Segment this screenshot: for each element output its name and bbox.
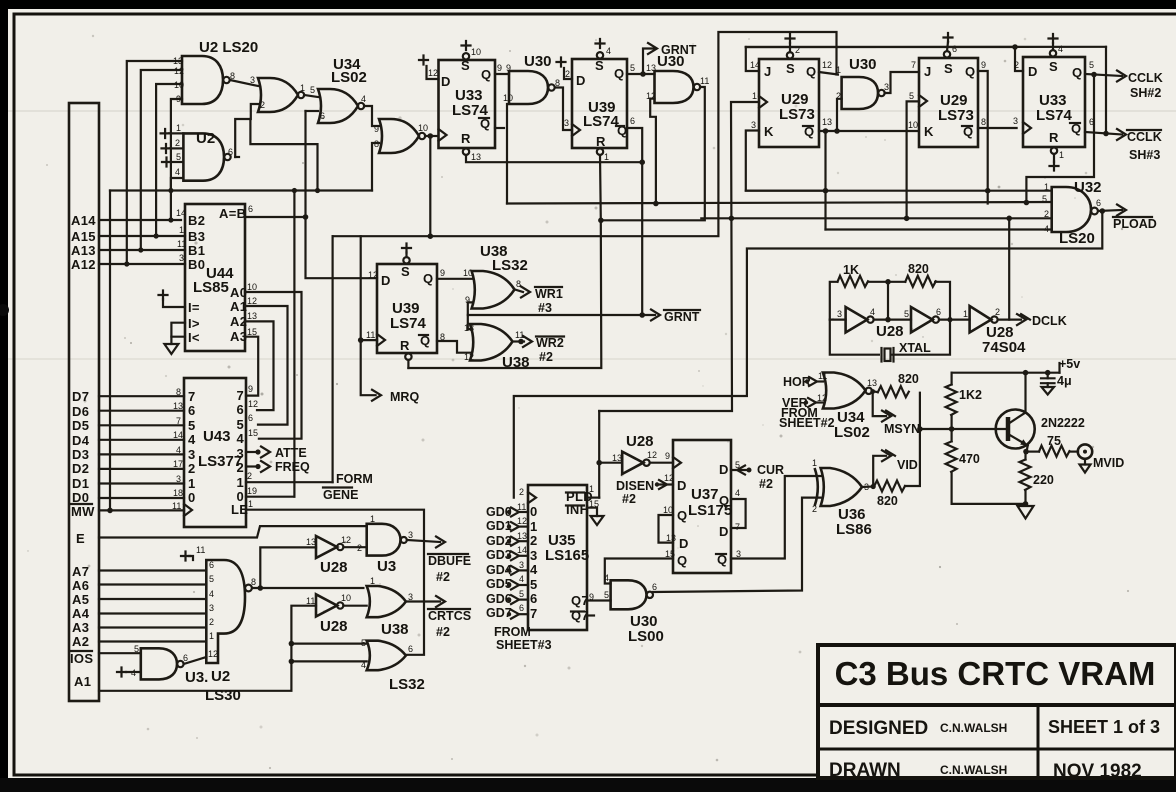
svg-text:10: 10 (663, 505, 673, 515)
svg-text:DCLK: DCLK (1032, 314, 1067, 328)
in1 line y190.7 (746, 190, 1052, 192)
svg-text:1: 1 (812, 458, 817, 468)
svg-text:LS73: LS73 (938, 107, 974, 124)
wire U39.Qbar6 to GRNT net riser (627, 128, 642, 315)
scan artifact faint lines (8, 110, 1176, 112)
svg-text:9: 9 (248, 384, 253, 394)
U37 Q15 wire to U30 nand in4 (605, 559, 673, 584)
svg-text:E: E (76, 531, 85, 546)
svg-text:6: 6 (237, 402, 245, 417)
riser LS30 out to inverter U28 first (260, 547, 316, 588)
svg-text:11: 11 (700, 76, 709, 86)
svg-text:SH#2: SH#2 (1130, 86, 1161, 100)
NOR3 in8 riser from MW line (372, 143, 379, 191)
svg-text:LS02: LS02 (834, 424, 870, 441)
MSYN arrow (873, 392, 920, 437)
svg-text:7: 7 (188, 389, 196, 404)
pullup + on U33 D input (419, 56, 439, 80)
pullup + on U3 pin4 (117, 668, 141, 677)
in5 line y203.5 (507, 202, 1052, 204)
U37 Q10 to D13 feedback (659, 515, 674, 543)
svg-text:#3: #3 (538, 301, 552, 315)
title block (818, 645, 1176, 782)
node A13 riser to U2 pin12 (141, 70, 182, 250)
svg-text:4: 4 (606, 46, 611, 56)
WR1 arrow (515, 287, 563, 316)
svg-text:A12: A12 (71, 257, 96, 272)
svg-text:S: S (401, 264, 410, 279)
svg-text:LS32: LS32 (389, 676, 425, 693)
svg-text:2: 2 (188, 461, 196, 476)
U29 second Qbar8 to U33 second clock (978, 127, 1017, 129)
svg-text:10: 10 (418, 123, 428, 133)
svg-text:IOS: IOS (70, 651, 93, 666)
svg-text:CUR: CUR (757, 463, 784, 477)
svg-text:6: 6 (408, 644, 413, 654)
mid node riser (887, 282, 889, 320)
wire A5 (99, 598, 206, 600)
wire U2 out8 to NOR in3 (230, 80, 258, 86)
U35 PLD pin wire (587, 497, 599, 499)
svg-text:11: 11 (366, 330, 375, 340)
U33 first clk riser to y236 (429, 136, 431, 236)
svg-text:R: R (400, 338, 410, 353)
svg-text:10: 10 (341, 593, 351, 603)
svg-text:LS74: LS74 (583, 113, 620, 130)
svg-text:U28: U28 (626, 433, 654, 450)
svg-text:12: 12 (822, 60, 832, 70)
svg-text:11: 11 (177, 239, 186, 249)
svg-text:5: 5 (909, 91, 914, 101)
svg-text:1: 1 (752, 91, 757, 101)
wire A14 bus to U44.B2 (99, 219, 181, 221)
svg-text:WR1: WR1 (535, 287, 563, 301)
wire A12 bus to U44.B0 (99, 263, 185, 265)
FORM riser (332, 236, 334, 482)
svg-text:MVID: MVID (1093, 456, 1124, 470)
svg-text:U28: U28 (876, 323, 904, 340)
nand U2 LS30 (196, 545, 256, 704)
svg-text:1: 1 (300, 83, 305, 93)
svg-text:11: 11 (196, 545, 205, 555)
svg-text:12: 12 (248, 399, 258, 409)
svg-text:15: 15 (247, 327, 257, 337)
svg-text:3: 3 (209, 603, 214, 613)
svg-text:13: 13 (822, 117, 832, 127)
svg-text:1: 1 (604, 152, 609, 162)
svg-text:R: R (596, 134, 606, 149)
svg-text:17: 17 (173, 459, 183, 469)
FREQ output arrow (246, 460, 310, 474)
GD3 input (486, 548, 528, 562)
svg-text:LS85: LS85 (193, 279, 229, 296)
GD7 input (486, 606, 528, 620)
bus labels (70, 213, 96, 689)
CCLKbar output (1085, 129, 1162, 162)
svg-text:D: D (719, 462, 729, 477)
svg-text:A6: A6 (72, 578, 89, 593)
and U3 (DBUFE) (357, 514, 413, 575)
svg-text:1K2: 1K2 (959, 388, 982, 402)
inverter U28 first (306, 535, 351, 576)
svg-text:LS20: LS20 (1059, 230, 1095, 247)
svg-text:DISEN: DISEN (616, 479, 654, 493)
GD1 input (486, 519, 528, 533)
resistor 1K (838, 276, 869, 287)
svg-text:13: 13 (612, 453, 622, 463)
svg-text:13: 13 (867, 378, 877, 388)
svg-text:SHEET 1 of 3: SHEET 1 of 3 (1048, 717, 1160, 737)
U30 third out3 to U29 second J (885, 72, 920, 93)
CRTCS arrow (406, 596, 471, 639)
nand U2 LS20 first (173, 39, 258, 104)
U37 Q4 to D7 feedback (731, 499, 746, 528)
wire MW to clock (99, 509, 184, 511)
svg-text:9: 9 (665, 451, 670, 461)
svg-text:3: 3 (250, 75, 255, 85)
svg-text:820: 820 (898, 372, 919, 386)
svg-text:A15: A15 (71, 229, 96, 244)
svg-text:VID: VID (897, 458, 918, 472)
or U38 LS32 first (465, 243, 528, 309)
svg-text:4: 4 (735, 488, 740, 498)
svg-text:LS74: LS74 (1036, 107, 1073, 124)
svg-text:U2: U2 (196, 130, 215, 147)
nand U2 second (pullup inputs) (183, 133, 230, 180)
svg-text:3: 3 (1013, 116, 1018, 126)
inverter U28 mid (612, 433, 657, 474)
svg-text:6: 6 (630, 116, 635, 126)
svg-text:1: 1 (370, 514, 375, 524)
svg-text:LS00: LS00 (628, 628, 664, 645)
svg-text:C.N.WALSH: C.N.WALSH (940, 721, 1007, 735)
svg-text:U3.: U3. (185, 669, 208, 686)
svg-text:6: 6 (652, 582, 657, 592)
wire D5 (99, 424, 184, 426)
svg-text:5: 5 (176, 152, 181, 162)
node A14 riser to U2 pin9 (171, 99, 182, 220)
svg-text:FORM: FORM (336, 472, 373, 486)
clock distribution line y236 (333, 235, 719, 237)
svg-text:2: 2 (565, 69, 570, 79)
svg-text:U30: U30 (849, 56, 877, 73)
wire A4 (99, 612, 206, 614)
resistor 820 upper (878, 386, 909, 397)
svg-text:A5: A5 (72, 592, 89, 607)
svg-text:I<: I< (188, 330, 200, 345)
riser U30 in10 down to in5 line (506, 104, 508, 204)
svg-text:2: 2 (519, 487, 524, 497)
svg-text:6: 6 (530, 591, 538, 606)
svg-text:1: 1 (248, 499, 253, 509)
or LS32 bottom (361, 638, 425, 693)
U2.6/GENE link riser x317.5 (250, 119, 317, 191)
title block vertical divider (1037, 705, 1040, 778)
PLOAD output arrow (1098, 205, 1157, 232)
svg-text:D5: D5 (72, 418, 89, 433)
oscillator loop box (830, 282, 950, 355)
svg-text:4: 4 (175, 167, 180, 177)
svg-text:2: 2 (247, 471, 252, 481)
svg-text:5: 5 (188, 418, 196, 433)
svg-text:4: 4 (870, 307, 875, 317)
svg-text:R: R (461, 131, 471, 146)
svg-text:Q: Q (481, 67, 491, 82)
svg-text:J: J (764, 64, 772, 79)
wire U33.Q to U30 nand (495, 73, 509, 75)
wire NOR2 out to NOR3 in9 (364, 106, 379, 126)
svg-text:10: 10 (174, 80, 184, 90)
GD4 input (486, 563, 528, 577)
VID arrow (873, 450, 918, 486)
U29 second clk riser from DCLK line (907, 101, 919, 218)
svg-text:2: 2 (1014, 60, 1019, 70)
wire A15 bus to U44.B3 (99, 235, 185, 237)
svg-text:14: 14 (750, 60, 760, 70)
svg-text:4: 4 (209, 589, 214, 599)
U39 second Q9 to OR gate (437, 278, 472, 280)
svg-text:4: 4 (1058, 44, 1063, 54)
svg-text:A=B: A=B (219, 206, 246, 221)
svg-text:1: 1 (209, 631, 214, 641)
nor U34 HOR/VER (817, 371, 877, 441)
or U38 (CRTCS) (367, 576, 413, 638)
svg-text:D7: D7 (72, 389, 89, 404)
svg-text:D: D (679, 536, 689, 551)
svg-text:Q: Q (614, 66, 624, 81)
U28 mid out to U37 clock (650, 462, 673, 464)
U29 first K feedback from Qbar (819, 130, 919, 132)
U33 second R pulldown with + below (1050, 148, 1065, 171)
svg-text:6: 6 (1096, 198, 1101, 208)
flip-flop U33 LS74 first (439, 41, 496, 162)
WR2 arrow (513, 336, 564, 364)
svg-text:DBUFE: DBUFE (428, 554, 471, 568)
svg-text:Q: Q (677, 553, 687, 568)
svg-text:14: 14 (517, 545, 527, 555)
svg-text:#2: #2 (436, 625, 450, 639)
svg-text:12: 12 (647, 450, 657, 460)
pullup + on U39 D input (557, 58, 573, 129)
svg-text:U30: U30 (657, 53, 685, 70)
quad flip-flop U37 LS175 (663, 440, 741, 573)
svg-text:9: 9 (497, 63, 502, 73)
svg-text:2: 2 (209, 617, 214, 627)
FORM row wire (246, 481, 333, 483)
svg-text:6: 6 (228, 147, 233, 157)
svg-text:7: 7 (237, 388, 245, 403)
svg-text:1K: 1K (843, 263, 859, 277)
svg-text:1: 1 (589, 484, 594, 494)
svg-text:470: 470 (959, 452, 980, 466)
wire NOR1 out to NOR2 in5 (304, 95, 318, 97)
HOR input (783, 375, 823, 389)
U35 Q7 wire to U30 nand in5 (587, 599, 611, 601)
svg-text:5: 5 (530, 577, 538, 592)
svg-text:A4: A4 (72, 606, 90, 621)
svg-text:J: J (924, 64, 932, 79)
svg-text:1: 1 (1059, 150, 1064, 160)
wire D7 (99, 395, 184, 397)
svg-text:LS32: LS32 (492, 257, 528, 274)
svg-text:R: R (1049, 130, 1059, 145)
svg-text:13: 13 (247, 311, 257, 321)
svg-text:C.N.WALSH: C.N.WALSH (940, 763, 1007, 777)
pullup pin5 of U2 second (162, 152, 183, 167)
svg-text:5: 5 (519, 589, 524, 599)
svg-text:2: 2 (260, 100, 265, 110)
svg-text:I>: I> (188, 316, 200, 331)
svg-text:#2: #2 (539, 350, 553, 364)
LS32 in5 wire (291, 642, 366, 644)
wire NOR3 out to U33 clock with junction (425, 135, 438, 137)
wire inv2 to inv3 (939, 319, 970, 321)
svg-text:10: 10 (908, 120, 918, 130)
U35 INH ground (587, 508, 604, 525)
osc input wire (830, 319, 846, 321)
wire A3 (99, 626, 206, 628)
in4 line y229.5 (826, 228, 1052, 230)
svg-text:5: 5 (209, 574, 214, 584)
XTAL symbol (882, 341, 932, 362)
pullup on U44 I= (159, 291, 186, 308)
CCLK output (1085, 71, 1163, 101)
MVID connector (1070, 444, 1125, 472)
emitter wire (1027, 446, 1028, 452)
svg-text:SH#3: SH#3 (1129, 148, 1160, 162)
svg-text:S: S (1049, 59, 1058, 74)
U28 first out to U3 and in2 (343, 546, 366, 548)
svg-text:13: 13 (173, 56, 183, 66)
svg-text:U37: U37 (691, 486, 719, 503)
shift register U35 LS165 (517, 484, 599, 630)
svg-text:8: 8 (251, 577, 256, 587)
svg-text:7: 7 (911, 60, 916, 70)
svg-text:LS165: LS165 (545, 547, 589, 564)
svg-text:I=: I= (188, 300, 200, 315)
DCLK riser x1009 (1008, 218, 1010, 319)
svg-text:SHEET#3: SHEET#3 (496, 638, 552, 652)
+5v stub (1059, 357, 1080, 373)
svg-text:U3: U3 (377, 558, 396, 575)
or U38 LS32 second (470, 324, 530, 371)
GD2 input (486, 534, 528, 548)
inverter U28 osc2 (911, 307, 941, 333)
nand U32 LS20 (1042, 179, 1102, 247)
resistor 820 osc (905, 276, 936, 287)
svg-text:6: 6 (519, 603, 524, 613)
svg-text:K: K (924, 124, 934, 139)
svg-text:WR2: WR2 (536, 336, 564, 350)
NOR out to 820 upper (872, 391, 878, 392)
svg-text:10: 10 (471, 47, 481, 57)
GRNT top arrow (643, 43, 697, 74)
U28 second out to U38 or in2 (343, 605, 366, 607)
svg-text:4: 4 (604, 573, 609, 583)
svg-text:13: 13 (517, 531, 527, 541)
svg-text:820: 820 (908, 262, 929, 276)
svg-text:U38: U38 (502, 354, 530, 371)
GD5 input (486, 577, 528, 591)
comparator U44 LS85 (176, 204, 257, 351)
svg-text:4: 4 (519, 574, 524, 584)
svg-text:19: 19 (247, 486, 257, 496)
svg-text:B2: B2 (188, 213, 205, 228)
GRNT mid line (468, 314, 655, 316)
GRNT mid arrow (651, 310, 700, 325)
svg-text:FROM: FROM (494, 625, 531, 639)
U44 I> I< tie with ground (164, 323, 185, 354)
resistor 75 (1026, 434, 1070, 457)
svg-text:9: 9 (176, 94, 181, 104)
flip-flop U29 LS73 first (750, 34, 832, 147)
svg-text:13: 13 (471, 152, 481, 162)
U29 first J input from divide loop (746, 47, 759, 71)
svg-text:D6: D6 (72, 404, 89, 419)
svg-text:3: 3 (237, 446, 245, 461)
flip-flop U39 LS74 first (572, 39, 627, 162)
U30 bottom out to XOR in2 riser (653, 498, 821, 592)
MW long line y190.5 (110, 189, 372, 191)
pullup + on LS30 pin11 (181, 552, 193, 561)
svg-text:U43: U43 (203, 428, 231, 445)
svg-text:12: 12 (368, 270, 378, 280)
svg-text:CCLK: CCLK (1128, 71, 1163, 85)
svg-text:12: 12 (341, 535, 351, 545)
svg-text:1: 1 (176, 123, 181, 133)
nor U34 first (258, 78, 305, 112)
nor U34 third (374, 119, 428, 153)
inverter U28 second (306, 593, 351, 635)
svg-text:13: 13 (173, 401, 183, 411)
wire U44.A2 down right (245, 321, 274, 410)
svg-text:7: 7 (530, 606, 538, 621)
svg-text:4: 4 (237, 431, 245, 446)
nand U30 third (836, 56, 889, 109)
svg-text:12: 12 (247, 296, 257, 306)
GENE riser (293, 191, 295, 497)
wire U44.A3 down right (245, 337, 258, 396)
svg-text:S: S (786, 61, 795, 76)
bus bar rectangle (69, 103, 99, 701)
svg-text:D: D (381, 273, 391, 288)
title block row divider 1 (818, 703, 1176, 707)
svg-text:U32: U32 (1074, 179, 1102, 196)
U29 second Q9 riser down to in5 line (978, 71, 988, 204)
title block row divider 2 (818, 748, 1176, 751)
wire U39.R down riser joins R-net (408, 155, 601, 368)
LE row wire from LS32 gate (246, 510, 424, 655)
svg-text:B1: B1 (188, 243, 205, 258)
svg-text:3: 3 (408, 530, 413, 540)
svg-text:U2: U2 (211, 668, 230, 685)
svg-text:U28: U28 (320, 618, 348, 635)
svg-text:C3 Bus CRTC VRAM: C3 Bus CRTC VRAM (835, 655, 1156, 692)
svg-text:D2: D2 (72, 461, 89, 476)
svg-text:12: 12 (174, 66, 184, 76)
svg-text:3: 3 (837, 309, 842, 319)
U30 third in2 from Qbar line (837, 99, 842, 131)
flip-flop U39 LS74 second (366, 244, 445, 360)
svg-text:12: 12 (428, 68, 438, 78)
xor U36 LS86 (812, 458, 872, 538)
MRQ arrow (372, 390, 419, 404)
svg-text:2: 2 (995, 307, 1000, 317)
U39 second clock from MRQ net (361, 339, 377, 341)
svg-text:2: 2 (175, 138, 180, 148)
node A15 riser to U2 pin10 (156, 84, 182, 236)
svg-text:MSYN: MSYN (884, 422, 920, 436)
